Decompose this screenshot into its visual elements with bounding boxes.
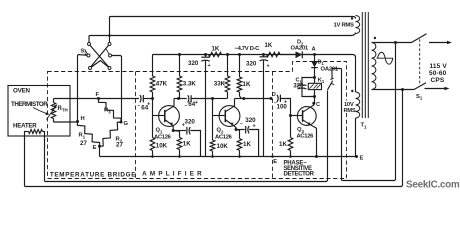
svg-text:T1: T1	[361, 123, 368, 130]
svg-text:+: +	[195, 100, 198, 106]
wire heater left lead to bottom loop	[25, 90, 403, 186]
wire S2 left pole down to H	[78, 55, 88, 122]
svg-text:AMPLIFIER: AMPLIFIER	[142, 171, 205, 178]
svg-text:1K: 1K	[243, 81, 251, 88]
resistor 1K stage2 collector load	[239, 55, 241, 78]
wire -4.7V DC supply rail	[153, 55, 356, 93]
svg-text:G: G	[124, 121, 129, 127]
resistor 1K stage1 emitter	[173, 131, 179, 138]
svg-text:27: 27	[116, 141, 123, 148]
svg-text:R1: R1	[79, 133, 86, 140]
svg-text:E: E	[360, 155, 364, 161]
svg-text:AC126: AC126	[297, 134, 315, 140]
svg-text:D: D	[272, 92, 276, 98]
thermistor R_TH	[51, 103, 55, 119]
svg-text:−: −	[137, 104, 140, 110]
resistor 3.3K collector load	[179, 55, 181, 77]
svg-text:27: 27	[80, 140, 87, 147]
diode D2 OA201	[280, 54, 296, 56]
svg-text:TEMPERATURE BRIDGE: TEMPERATURE BRIDGE	[50, 171, 136, 178]
svg-text:320: 320	[245, 117, 256, 124]
node H	[76, 120, 79, 123]
relay contact K1	[331, 70, 333, 79]
svg-text:F: F	[96, 92, 100, 98]
svg-text:+: +	[267, 64, 270, 70]
svg-text:D1: D1	[318, 59, 325, 66]
secondary winding 10V RMS	[356, 92, 360, 118]
wire Q3 collector to node C	[311, 103, 314, 106]
S2 crossover straps	[90, 45, 109, 67]
node E at transformer	[355, 155, 358, 158]
transistor Q3 AC126	[291, 115, 303, 117]
svg-text:S1: S1	[416, 94, 423, 101]
svg-text:115 V: 115 V	[430, 63, 448, 70]
resistor 1K stage2 emitter	[236, 130, 240, 139]
svg-text:OA201: OA201	[291, 45, 309, 51]
svg-text:AC126: AC126	[154, 134, 172, 140]
node Q3 base junction	[289, 114, 292, 117]
AC sine symbol	[377, 57, 394, 59]
junction dots heater loop on primary rails	[394, 41, 397, 44]
svg-text:R3: R3	[104, 108, 111, 115]
capacitor 64 interstage coupling	[188, 95, 189, 102]
oven enclosure box	[8, 86, 70, 137]
svg-text:3.3K: 3.3K	[183, 81, 197, 88]
svg-text:H: H	[81, 116, 85, 122]
svg-text:RTH: RTH	[58, 106, 68, 113]
svg-text:1K: 1K	[183, 141, 191, 148]
node stage1 base junction	[151, 97, 154, 100]
svg-text:RMS: RMS	[344, 108, 356, 114]
wire Q2 collector to node	[233, 99, 236, 107]
svg-text:100: 100	[277, 104, 288, 111]
node E of bridge	[98, 145, 101, 148]
svg-text:SeekIC.com: SeekIC.com	[406, 179, 460, 190]
svg-text:AC126: AC126	[215, 134, 233, 140]
node F	[97, 97, 100, 100]
svg-text:+: +	[208, 63, 211, 69]
capacitor 320 stage2 emitter bypass	[236, 129, 245, 131]
svg-text:320: 320	[246, 60, 257, 67]
wire primary top rail to S1	[372, 42, 412, 44]
svg-text:E: E	[93, 145, 97, 151]
node E detector label	[271, 155, 274, 158]
diode D1 OA201	[311, 61, 318, 67]
wire primary bottom rail to S1	[372, 89, 415, 91]
svg-text:K1: K1	[318, 77, 325, 84]
S2 blade ticks	[85, 49, 88, 54]
transistor Q2 AC126	[213, 115, 225, 117]
resistor 1K supply a	[209, 52, 222, 56]
switch S1 bottom pole	[414, 83, 426, 90]
svg-text:50-60: 50-60	[429, 70, 447, 77]
bridge arm R3 (F to G)	[99, 99, 122, 123]
svg-text:+: +	[253, 123, 256, 129]
dashed enclosure: temperature bridge / amplifier / detector outline	[48, 62, 347, 179]
wire A from S2 to transformer 1V winding top	[110, 17, 356, 43]
svg-text:1K: 1K	[243, 141, 251, 148]
primary winding	[372, 43, 376, 90]
node D	[270, 97, 273, 100]
svg-text:1V RMS: 1V RMS	[334, 23, 355, 29]
wire node C up through relay to D1	[314, 97, 316, 104]
dashed divider amplifier/detector	[272, 72, 274, 179]
wire stage2 collector to node D	[244, 98, 271, 100]
wire Q3 emitter to rail	[311, 125, 316, 156]
wire E down to common rail	[99, 146, 101, 156]
transformer core	[361, 12, 363, 118]
wire common emitter rail E	[100, 156, 357, 158]
svg-text:−: −	[240, 121, 243, 127]
svg-text:OVEN: OVEN	[13, 87, 30, 94]
node G	[120, 121, 123, 124]
junction blob on bar	[108, 34, 111, 37]
svg-text:10K: 10K	[156, 142, 168, 149]
svg-text:320: 320	[293, 82, 304, 89]
secondary winding 1V RMS	[356, 16, 360, 34]
transistor Q1 AC126	[153, 115, 165, 117]
dashed divider bridge/amplifier	[135, 72, 137, 179]
wire heater right lead down	[45, 91, 328, 182]
thermistor arrow	[47, 105, 58, 120]
svg-text:−: −	[184, 103, 187, 109]
svg-text:−4.7V D-C: −4.7V D-C	[235, 46, 261, 52]
curved arrow THERMISTOR to R_TH	[33, 108, 48, 114]
svg-text:1K: 1K	[279, 141, 287, 148]
resistor 1K detector base	[290, 116, 292, 138]
resistor 33K stage2 bias	[226, 92, 229, 99]
wire Q2 emitter	[234, 126, 236, 130]
svg-text:THERMISTOR: THERMISTOR	[11, 101, 48, 108]
capacitor C1 320 across relay coil	[302, 78, 315, 85]
svg-text:320: 320	[185, 118, 196, 125]
wire R_TH bottom to bridge node H	[54, 121, 78, 123]
svg-text:E: E	[273, 159, 277, 165]
wire Q1 emitter	[172, 126, 174, 131]
svg-text:33K: 33K	[214, 81, 226, 88]
node A	[313, 53, 316, 56]
wire R_TH top to bridge node F	[54, 98, 99, 100]
capacitor 100 coupling	[277, 95, 278, 102]
S1 gang link dashed	[419, 39, 421, 84]
node C	[312, 102, 315, 105]
node stage2 collector	[242, 97, 245, 100]
capacitor 320 stage1 emitter bypass	[173, 130, 186, 132]
resistor 1K supply b	[267, 52, 281, 56]
heater resistor	[29, 130, 43, 134]
S2 tent strap joining bottom throws	[92, 61, 109, 67]
capacitor 320 supply filter 2	[262, 53, 265, 56]
node stage1 collector	[177, 97, 180, 100]
relay coil K1	[308, 83, 321, 89]
svg-text:C: C	[316, 102, 320, 108]
svg-text:1K: 1K	[265, 43, 273, 49]
wire B bar to transformer 1V winding bottom	[89, 33, 356, 43]
resistor 10K stage2	[212, 99, 214, 141]
bridge arm R2 27 (G to E)	[100, 122, 122, 146]
svg-text:CPS: CPS	[431, 77, 445, 84]
svg-text:1K: 1K	[212, 46, 220, 52]
svg-text:47K: 47K	[156, 81, 168, 88]
capacitor 320 supply filter 1	[204, 53, 207, 56]
wire relay contact top to 115V loop	[332, 43, 396, 181]
svg-text:DETECTOR: DETECTOR	[284, 171, 315, 177]
switch S2 terminals	[88, 43, 91, 46]
svg-text:OA201: OA201	[321, 67, 339, 73]
svg-text:10K: 10K	[217, 143, 229, 150]
svg-text:+: +	[147, 102, 150, 108]
wire S2 right pole to G	[112, 56, 122, 123]
wire Q1 collector to node	[172, 99, 175, 107]
switch S1 top pole	[412, 34, 427, 43]
capacitor 64 input coupling	[99, 98, 140, 100]
resistor 10K stage1	[152, 99, 154, 138]
svg-text:HEATER: HEATER	[13, 123, 37, 130]
bridge arm R1 27 (H to E)	[77, 122, 99, 147]
svg-text:320: 320	[188, 60, 199, 67]
node stage2 base junction	[211, 97, 214, 100]
resistor 47K	[150, 76, 155, 92]
